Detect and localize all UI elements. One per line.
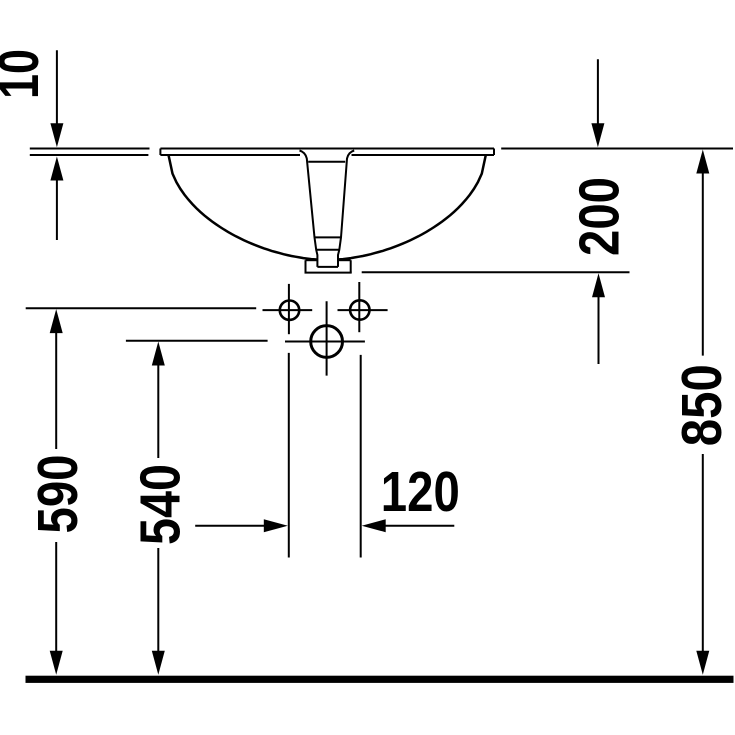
drain box top edge right xyxy=(338,259,351,261)
reference line 540 xyxy=(126,340,268,342)
svg-text:10: 10 xyxy=(0,49,50,99)
drain funnel top step line xyxy=(308,161,345,163)
extension line right for 120 xyxy=(360,355,362,558)
dimension 850 lower line xyxy=(702,454,704,653)
basin bowl outer arc xyxy=(169,155,486,260)
dimension label 10 xyxy=(0,49,50,99)
dimension label 200 xyxy=(568,177,631,256)
basin flange bottom line left xyxy=(160,154,300,156)
svg-text:120: 120 xyxy=(381,460,460,523)
basin flange left cap xyxy=(159,149,161,156)
dimension 200 upper line xyxy=(597,59,599,126)
faucet hole large circle vertical centerline xyxy=(326,301,328,375)
svg-text:590: 590 xyxy=(26,455,89,534)
floor line xyxy=(26,676,734,683)
drain funnel tube bottom xyxy=(317,266,338,268)
dimension 850 upper line xyxy=(702,172,704,356)
faucet hole small circle left xyxy=(280,301,299,320)
dimension 850 down arrowhead xyxy=(696,651,709,675)
reference line 590 xyxy=(26,307,257,309)
dimension 10 up arrowhead xyxy=(50,157,63,181)
extension line left for 120 xyxy=(288,353,290,558)
faucet hole small circle right xyxy=(350,300,369,319)
dimension label 590 xyxy=(26,455,89,534)
drain funnel left edge xyxy=(300,151,318,267)
dimension label 850 xyxy=(670,364,733,446)
dimension 120 right-pointing arrowhead xyxy=(264,519,288,532)
countertop left section bottom line xyxy=(30,154,149,156)
drain box top edge left xyxy=(306,259,318,261)
dimension 590 upper line xyxy=(55,331,57,449)
dimension 850 up arrowhead xyxy=(696,150,709,174)
dimension 590 lower line xyxy=(55,542,57,653)
dimension 120 right line xyxy=(384,525,455,527)
dimension label 540 xyxy=(128,464,191,545)
faucet hole large circle xyxy=(311,326,343,358)
drain funnel right edge xyxy=(338,151,354,267)
dimension 540 lower line xyxy=(157,548,159,653)
dimension 540 up arrowhead xyxy=(152,342,165,366)
drain box right edge xyxy=(350,260,352,272)
faucet hole small circle left vertical centerline xyxy=(288,284,290,334)
drain funnel white mask xyxy=(300,151,355,267)
basin flange right cap xyxy=(493,149,495,156)
dimension 590 up arrowhead xyxy=(50,309,63,333)
drain box bottom edge xyxy=(305,272,352,274)
svg-text:850: 850 xyxy=(670,364,733,446)
dimension 540 upper line xyxy=(157,364,159,459)
drain funnel line upper xyxy=(315,236,342,238)
dimension 200 up arrowhead xyxy=(592,273,605,297)
countertop right section line xyxy=(501,148,733,150)
dimension 540 down arrowhead xyxy=(152,651,165,675)
dimension 200 lower line xyxy=(598,295,600,364)
faucet hole small circle right horizontal centerline xyxy=(338,309,388,311)
dimension 590 down arrowhead xyxy=(50,651,63,675)
svg-text:200: 200 xyxy=(568,177,631,256)
drain box left edge xyxy=(305,260,307,272)
basin flange bottom line right xyxy=(352,154,495,156)
basin flange top line xyxy=(160,148,494,150)
reference line 200 lower xyxy=(362,271,630,273)
dimension 120 left line xyxy=(195,525,266,527)
dimension 120 left-pointing arrowhead xyxy=(362,519,386,532)
faucet hole large circle horizontal centerline xyxy=(285,341,365,343)
dimension 10 down arrowhead xyxy=(50,123,63,147)
faucet hole small circle left horizontal centerline xyxy=(263,309,313,311)
drain funnel line lower xyxy=(316,249,339,251)
faucet hole small circle right vertical centerline xyxy=(358,282,360,332)
dimension 200 down arrowhead xyxy=(591,123,604,147)
dimension 10 lower line xyxy=(56,178,58,240)
svg-text:540: 540 xyxy=(128,464,191,545)
dimension 10 upper line xyxy=(56,50,58,126)
countertop left section top line xyxy=(30,148,150,150)
